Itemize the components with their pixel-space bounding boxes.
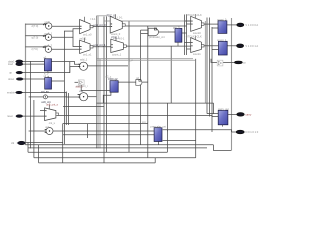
wire vertical x62.7 [62,124,64,163]
wire mid gray horizontal [97,58,194,60]
svg-text:count0: count0 [193,31,201,35]
wire g2 in [118,81,136,83]
wire inv in [75,81,79,83]
wire xor5 out [88,96,97,98]
svg-text:d(7:0): d(7:0) [32,24,39,28]
flip-flop F6 [217,38,227,55]
svg-text:count_0: count_0 [111,32,121,36]
wire vertical x106.5 [106,17,108,153]
flip-flop F2 [41,74,52,94]
xor X7 [45,125,53,135]
wire xor1 to mux1 [52,25,80,27]
output pad Q2 [237,44,259,48]
xor X4 [78,57,87,70]
wire corner x155.2 [154,158,156,163]
svg-text:cnt_s: cnt_s [49,121,56,125]
svg-text:FDC q2: FDC q2 [109,77,118,81]
wire ff7 q to pad [228,113,237,115]
wire and in b [141,32,149,34]
wire vertical x87.5 [87,124,89,138]
mux M3 [107,13,126,36]
svg-text:un1_s1: un1_s1 [83,53,92,57]
wire ff7 d [214,113,219,115]
wire corner to mux jog [64,30,73,32]
mux M4 [111,36,127,57]
xor X1 [43,20,52,29]
wire mid gray horizontal b [97,59,196,61]
wire q5 pad feed [232,131,237,133]
wire vertical x140.6 [140,30,142,145]
wire mux6 in stubs [185,42,191,44]
mux port marks [45,21,193,117]
svg-text:prescaler_cnt: prescaler_cnt [149,35,165,39]
svg-text:un1_cnt_1: un1_cnt_1 [94,43,107,47]
svg-text:reset: reset [7,114,13,118]
svg-text:carry_out: carry_out [218,107,229,111]
wire pad p2 [23,67,80,73]
svg-text:enable: enable [7,91,15,95]
svg-text:add_1: add_1 [80,57,88,61]
wire bottom corner vertical [38,145,40,163]
output pad Q5 [236,130,258,134]
svg-text:xor8_1: xor8_1 [44,31,52,35]
wire top bus [104,20,191,22]
input pad P2 [9,71,23,74]
wire ff4 bottom [157,141,159,145]
flip-flop F5 [217,17,227,33]
output pad Q3 [235,61,247,64]
buffer G1 [217,60,223,66]
wire xor2 to mux2 a [73,37,80,46]
wire vertical x186.5 [186,15,188,56]
wire ff5 q to pad [227,24,237,26]
wire bottom bus 3 [28,151,167,153]
svg-text:count_0: count_0 [217,17,227,21]
svg-text:FDC_0: FDC_0 [107,13,116,17]
wire mid gray vertical pair b [97,16,99,149]
input pad P4 [7,91,22,95]
svg-text:load: load [8,62,13,66]
wire ff3 q [182,32,187,34]
wire ff4 clk feed [163,140,196,142]
wire and out to ff3 [159,31,175,33]
wire mux2 out [93,46,111,48]
svg-text:V 1 0 0 0 A: V 1 0 0 0 A [245,23,258,27]
wire vertical x213.5 [213,103,215,114]
wire mid h2 [63,106,104,108]
wire right border vertical [231,18,233,150]
wire xor6 out [47,96,66,98]
input pad P5 [7,114,23,118]
wire vertical x69.8 [69,62,71,73]
wire inv out [80,85,82,91]
wire ff4 q branch [166,130,168,131]
wire vertical x167.4 [166,103,168,152]
wire ff1 q to xor4 [52,62,80,65]
buffer G2 [136,76,142,85]
wire ff4 q long [163,130,232,132]
wire pad p5 to mux7 [23,115,45,117]
svg-text:OTCLK1-CLK: OTCLK1-CLK [186,34,202,38]
wire inner box right2 [68,93,70,125]
svg-text:count1: count1 [193,52,201,56]
input pad P1a [8,59,23,63]
wire mux5 in stub a [185,20,191,22]
wire and in a [141,29,149,31]
svg-text:I 0-1: I 0-1 [117,16,123,20]
wire gate g1 out to pad [223,61,235,63]
wire vertical x147.8 [147,26,149,158]
wire ff6 clk stub [212,49,218,51]
wire xor2 input [25,35,45,37]
wire clk horizontal [26,141,63,143]
wire vertical x196 [195,59,197,158]
wire xor4 out [88,65,128,67]
svg-text:I 0-1: I 0-1 [90,17,96,21]
wire xor7 out to ff4 [53,130,154,132]
wire ff2 q [52,80,65,82]
svg-text:un9_cnt_s: un9_cnt_s [46,102,59,106]
wire mux3 out long [125,25,187,27]
wire vertical x184.5 [184,15,186,56]
wire inner box left2 [65,92,67,126]
svg-text:r(7:0): r(7:0) [32,47,38,51]
wire ff5 clk stub [212,27,218,29]
xor X5 [76,84,88,100]
wire g2 out [142,81,148,83]
svg-text:count_1: count_1 [217,38,227,42]
wire pad p4 to xor5 [22,93,79,98]
wire vertical x104 [103,17,105,163]
flip-flop F7 [218,107,229,127]
mux M1 [80,17,96,37]
mux select stubs [49,14,195,109]
wire inner box left [63,31,65,144]
svg-text:cnt_2: cnt_2 [142,120,149,124]
input pad P3 [8,77,23,81]
wire vertical x209.5 [209,18,211,117]
flip-flop F4 [150,125,166,142]
wire bottom corner right [213,145,231,151]
wire vertical x205.5 [204,21,206,103]
svg-text:N 0 1 0 1 0: N 0 1 0 1 0 [246,130,259,134]
mux M5 [186,13,204,35]
xor X6 [41,95,51,104]
wire xor1 input [25,23,46,25]
xor X2 [43,31,53,40]
wire clk vertical b [33,100,35,158]
input pad P1b [8,62,23,66]
wire vertical x128 [128,21,130,152]
xor X3 [43,43,53,52]
inverter U1 [76,80,88,88]
wire ff8 d [81,89,110,91]
svg-text:ss0_1: ss0_1 [80,37,87,41]
wire bottom bus 4 [34,157,196,159]
wire y123.6 [63,123,148,125]
wire mux5 out [204,23,218,25]
wire bottom bus 5 [39,162,156,164]
output pad Q1 [237,23,258,27]
wire mux6 out [204,45,218,47]
wire vertical x171.2 [170,46,172,103]
wire inner left vertical [30,61,32,148]
svg-text:count_1: count_1 [112,52,122,56]
wire bottom bus 2 [28,147,207,149]
svg-text:cnt: cnt [80,89,84,93]
svg-text:down: down [8,77,15,81]
svg-text:prescaler_cnt: prescaler_cnt [150,125,166,129]
wire xor3 input [25,46,45,48]
wire ff6 q to pad [227,45,237,47]
wire mux7 in a [40,110,45,112]
wire box top edge [97,15,107,17]
wire left border vertical [25,24,27,145]
wire ff8 clk route [103,92,111,103]
svg-text:q(7:0): q(7:0) [32,36,39,40]
wire vertical x207 [206,18,208,114]
wire xor2 to mux1 b [52,29,80,38]
input pad P6 clock [11,141,25,145]
svg-text:carry: carry [246,112,252,116]
wire xor5 top in [78,94,80,96]
svg-text:un1: un1 [45,125,50,129]
svg-text:OTCLK1-CLK: OTCLK1-CLK [186,13,202,17]
wire clk vertical a [27,142,29,152]
wire ff7 d feed [207,113,214,115]
output pad Q4 [237,112,252,116]
wire vertical x212 [211,27,213,132]
svg-text:un9_cnt_i: un9_cnt_i [76,84,88,88]
svg-text:xor8_2: xor8_2 [44,43,52,47]
svg-text:xor8: xor8 [45,20,51,24]
wire xor7 in [29,130,46,132]
svg-text:un1_s0: un1_s0 [83,33,92,37]
svg-text:I 0-1: I 0-1 [119,37,125,41]
wire mid gray vertical pair a [96,16,98,149]
wire pad p1 to ff1 [23,61,45,63]
wire ff4 in b [63,134,155,136]
flip-flop F8 [106,75,119,93]
svg-text:V 1 0 0 1 A: V 1 0 0 1 A [245,44,258,48]
wire vertical x100 [99,59,101,149]
wire xor6 in [29,96,44,98]
flip-flop F1 [44,55,52,75]
svg-text:q_c: q_c [129,59,134,62]
wire mux1 out [93,26,110,28]
wire mid right bus [97,102,214,104]
wire bottom bus 1 [25,144,213,146]
wire mux7 out [57,115,218,116]
flip-flop F3 [173,26,182,46]
svg-text:cnt_en: cnt_en [41,90,49,94]
svg-text:un1_cnt_0: un1_cnt_0 [94,23,107,27]
mux M2 [80,37,94,57]
svg-text:pre_0: pre_0 [173,26,180,30]
wire pad p1b [23,63,45,65]
mux M7 [45,102,59,124]
and gate A1 [148,28,165,39]
wire gate g1 in [211,59,217,63]
wire pad p3 to ff2 [23,78,45,80]
mux M6 [186,34,204,56]
wire xor3 to mux2 b [52,48,80,50]
wire mux5 in stub b [187,23,191,25]
wire mux4 out long [126,45,191,47]
